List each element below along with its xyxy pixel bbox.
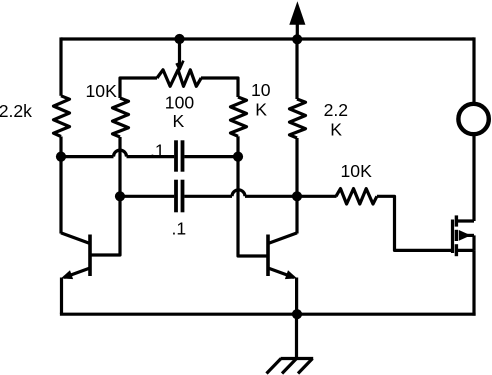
node: junction dot bottom xyxy=(292,309,302,319)
capacitor C1 .1 xyxy=(176,140,183,171)
transistor Q2 xyxy=(268,196,297,314)
svg-text:.1: .1 xyxy=(172,218,187,238)
node: junction dot row1 right xyxy=(233,152,243,162)
node: junction dot top V+ xyxy=(292,34,302,44)
hop over cross wire on row2 xyxy=(232,190,245,197)
wire bottom rail xyxy=(60,313,476,316)
svg-text:K: K xyxy=(173,111,185,131)
wire left rail upper xyxy=(59,37,62,95)
svg-text:10K: 10K xyxy=(341,161,373,181)
potentiometer 100K body xyxy=(157,70,201,87)
resistor 10K left xyxy=(113,98,129,137)
resistor 10K gate xyxy=(336,189,377,204)
svg-text:2.2: 2.2 xyxy=(324,100,348,120)
MOSFET Q3 xyxy=(453,215,475,256)
node: junction dot left row1 xyxy=(56,152,66,162)
wire 2.2k to row1 xyxy=(59,137,62,157)
hop over 10K-left line on row1 xyxy=(114,150,127,156)
wire top rail xyxy=(61,37,474,40)
wire cross-couple to Q2 base xyxy=(238,157,267,256)
wire row2 to 2.2K node xyxy=(245,195,297,198)
svg-text:10: 10 xyxy=(251,80,271,100)
svg-text:K: K xyxy=(255,99,267,119)
wire row1 mid segment xyxy=(127,155,175,158)
resistor 10K right xyxy=(231,97,247,136)
svg-text:2.2k: 2.2k xyxy=(0,101,32,121)
power arrow V+ xyxy=(289,1,305,39)
wire pot left lead xyxy=(120,78,157,98)
wire right rail top xyxy=(472,37,475,104)
ground xyxy=(267,314,314,374)
wire right rail source to bottom xyxy=(472,250,475,315)
wire row2 left segment xyxy=(120,195,174,198)
node: junction dot row2 right xyxy=(292,191,302,201)
potentiometer wiper arrow xyxy=(177,39,184,69)
wire right rail drain xyxy=(472,134,475,221)
wire 10K-right to row1 dot xyxy=(236,136,239,156)
capacitor C2 .1 xyxy=(176,180,183,213)
transistor Q1 xyxy=(61,157,90,314)
node: junction dot top wiper xyxy=(174,34,184,44)
wire row2 to gate resistor xyxy=(297,195,337,198)
resistor 2.2K right xyxy=(290,37,306,196)
lamp / indicator circle xyxy=(458,104,488,134)
wire row1 right segment xyxy=(184,155,238,158)
svg-text:.1: .1 xyxy=(150,140,165,160)
svg-text:100: 100 xyxy=(165,92,195,112)
svg-text:K: K xyxy=(330,119,342,139)
resistor 2.2k xyxy=(54,96,70,137)
node: junction dot row2 left xyxy=(115,191,125,201)
wire pot right lead xyxy=(201,78,238,97)
svg-text:10K: 10K xyxy=(86,81,118,101)
wire row2 dot down to Q1 base path xyxy=(92,196,121,255)
wire row1 left segment xyxy=(61,155,114,158)
wire row2 mid segment xyxy=(184,195,232,198)
wire gate lead xyxy=(377,196,451,250)
wire 10K-left to row2 (through row1 hop) xyxy=(118,137,121,196)
